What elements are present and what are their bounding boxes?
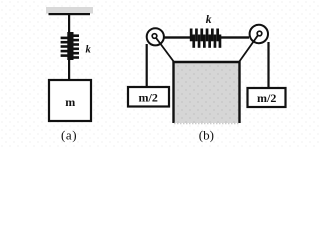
right pulley axle xyxy=(257,31,262,36)
svg-text:k: k xyxy=(206,14,212,26)
ceiling underline xyxy=(49,13,91,15)
wire upper (a) xyxy=(68,15,70,34)
svg-text:m/2: m/2 xyxy=(139,91,158,105)
left pulley axle xyxy=(152,34,157,39)
spring k (b) xyxy=(190,29,222,48)
right m/2 box xyxy=(248,88,286,107)
wire pulley-to-spring left xyxy=(163,36,190,38)
right string down xyxy=(267,42,269,88)
block (b) xyxy=(174,63,240,123)
svg-text:m/2: m/2 xyxy=(257,91,276,105)
left m/2 box xyxy=(128,87,169,107)
svg-text:m: m xyxy=(65,95,75,109)
svg-text:k: k xyxy=(86,45,92,56)
left pulley xyxy=(147,28,164,45)
ceiling bar (a) xyxy=(46,7,93,14)
mass box m xyxy=(49,80,91,121)
block borders xyxy=(174,62,240,123)
block texture xyxy=(174,63,240,123)
left pulley arm xyxy=(155,37,174,63)
left string down xyxy=(146,44,148,87)
wire spring-to-pulley right xyxy=(220,36,249,38)
right pulley xyxy=(250,25,268,43)
svg-text:(b): (b) xyxy=(199,128,214,143)
svg-text:(a): (a) xyxy=(61,128,77,143)
spring k (a) xyxy=(61,32,79,60)
block bottom faint edge xyxy=(174,123,240,125)
wire lower (a) xyxy=(68,59,70,80)
right pulley arm xyxy=(239,34,259,62)
